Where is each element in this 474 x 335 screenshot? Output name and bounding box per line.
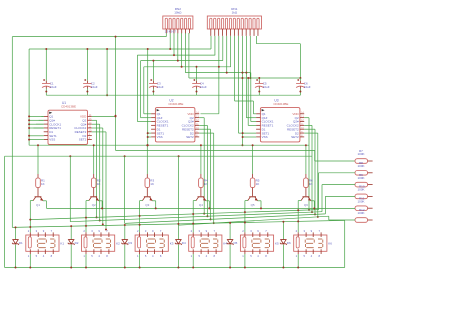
transistor Q1 xyxy=(33,192,43,207)
svg-text:D5: D5 xyxy=(234,241,238,245)
resistor R7 100K xyxy=(355,149,373,163)
wire bundle B3 to R10 xyxy=(125,214,326,224)
wire RN2 pin2 drop xyxy=(169,33,171,49)
wire U2 feed v1 xyxy=(136,55,138,121)
wire U1 right staircase to bundle xyxy=(92,119,97,121)
wire Q4 right leg xyxy=(206,200,210,202)
svg-text:100K: 100K xyxy=(358,199,365,203)
display K3 xyxy=(135,229,174,258)
wire RN2 pin6 drop xyxy=(184,33,186,73)
svg-text:10uF: 10uF xyxy=(50,85,57,89)
wire RN1 pinE xyxy=(226,36,228,73)
svg-text:10uF: 10uF xyxy=(200,85,207,89)
svg-text:K5: K5 xyxy=(275,241,279,245)
diode D1 zener xyxy=(12,240,23,245)
wire U2 v0 xyxy=(147,49,149,145)
capacitor C6 10uF xyxy=(296,79,311,89)
resistor R12 100K xyxy=(355,208,373,222)
display K6 xyxy=(294,229,333,258)
svg-text:D6: D6 xyxy=(287,241,291,245)
wire bottom trunk GND xyxy=(5,267,345,269)
wire bundle B5 xyxy=(12,220,344,227)
svg-text:VSS: VSS xyxy=(262,135,268,139)
wire D1 net xyxy=(15,227,17,239)
wire R3 top feed xyxy=(146,145,148,174)
svg-text:1K: 1K xyxy=(309,182,313,186)
svg-text:100K: 100K xyxy=(358,211,365,215)
wire RN2 pin3 drop xyxy=(173,33,175,55)
svg-text:D1: D1 xyxy=(19,241,23,245)
wire RN1 pinF drop xyxy=(230,36,232,67)
wire RN1 pinG jog xyxy=(235,100,254,102)
svg-text:D2: D2 xyxy=(75,241,79,245)
svg-text:1kΩ: 1kΩ xyxy=(232,11,238,15)
resistor R10 100K xyxy=(355,185,373,199)
diode D6 zener xyxy=(280,240,291,245)
wire bundle B2 to R9 xyxy=(70,212,322,222)
wire C2 stem xyxy=(86,89,88,96)
wire R6 top feed xyxy=(305,145,307,174)
wire RN1 pinB xyxy=(214,36,216,55)
resistor R3 1k xyxy=(145,174,154,192)
wire Q2 left leg xyxy=(86,200,89,202)
resistor R11 100K xyxy=(355,196,373,210)
svg-text:100K: 100K xyxy=(358,176,365,180)
svg-text:K2: K2 xyxy=(116,241,120,245)
svg-text:100K: 100K xyxy=(358,164,365,168)
wire U2 feed v3 xyxy=(143,67,145,114)
wire C5 stem xyxy=(258,89,260,96)
display K5 xyxy=(240,229,279,258)
wire K3 bottom pin to GND xyxy=(139,254,141,268)
wire F3 xyxy=(137,54,215,56)
svg-text:1K: 1K xyxy=(204,182,208,186)
wire Q6 left leg xyxy=(298,200,301,202)
wire RN1 pinM to C6 xyxy=(255,36,257,44)
wire Q1 left leg xyxy=(30,200,33,202)
svg-text:10uF: 10uF xyxy=(157,85,164,89)
wire RN2 pin7 drop xyxy=(188,33,190,78)
wire RN1 pinD xyxy=(222,36,224,61)
svg-text:10kΩ: 10kΩ xyxy=(174,11,182,15)
wire F4 xyxy=(141,60,223,62)
svg-text:Q5: Q5 xyxy=(251,203,255,207)
transistor Q3 xyxy=(142,192,152,207)
wire C1 stem xyxy=(45,89,47,96)
transistor Q5 xyxy=(248,192,258,207)
svg-text:Q2: Q2 xyxy=(92,203,96,207)
wire RN2 pin1 drop xyxy=(165,33,167,37)
wire RN1 pinG long drop xyxy=(234,36,236,101)
wire D2 net xyxy=(70,226,72,240)
wire R1 top feed xyxy=(37,145,39,174)
wire D6 net xyxy=(282,222,284,240)
svg-text:K1: K1 xyxy=(60,241,64,245)
svg-text:2 3 4 5 6 7: 2 3 4 5 6 7 xyxy=(165,30,177,34)
wire Q5 left leg xyxy=(245,200,248,202)
wire U2 feed v2 xyxy=(140,61,142,118)
wire cap bottom trunk xyxy=(46,94,300,96)
wire K4 bottom pin to GND xyxy=(192,254,194,268)
resistor network RN2 10k&#937; xyxy=(163,7,193,33)
wire C3 stem xyxy=(152,89,154,96)
svg-text:D3: D3 xyxy=(128,241,132,245)
resistor R1 1k xyxy=(36,174,45,192)
svg-text:1K: 1K xyxy=(150,182,154,186)
wire RN1 pinH long drop to U3 xyxy=(238,36,240,133)
wire U3 pin feeds xyxy=(247,78,249,125)
svg-text:100K: 100K xyxy=(358,188,365,192)
wire D4 net xyxy=(177,224,179,240)
wire Q6 right leg xyxy=(311,200,315,202)
svg-text:VSS: VSS xyxy=(49,138,55,142)
IC U3 CD4013BE xyxy=(256,99,304,142)
resistor R6 1k xyxy=(304,174,313,192)
wire trunk T2 VDD-R7 xyxy=(116,149,315,151)
svg-text:D4: D4 xyxy=(182,241,186,245)
svg-text:100K: 100K xyxy=(358,152,365,156)
wire trunk T1 VSS xyxy=(29,144,309,146)
capacitor C4 10uF xyxy=(192,79,207,89)
svg-text:K3: K3 xyxy=(170,241,174,245)
wire F2 horizontal xyxy=(29,48,211,50)
diode D4 zener xyxy=(175,240,186,245)
diode D2 zener xyxy=(68,240,79,245)
resistor R5 1k xyxy=(250,174,259,192)
wire trunk T3 xyxy=(5,155,312,157)
wire VDD vertical from top trunk xyxy=(115,37,117,151)
display K4 xyxy=(189,229,228,258)
svg-text:1K: 1K xyxy=(256,182,260,186)
wire F7 xyxy=(189,77,301,79)
wire U3 right staircase to bundle xyxy=(304,117,309,119)
resistor R4 1k xyxy=(199,174,208,192)
wire F6 xyxy=(185,72,250,74)
svg-text:SET2: SET2 xyxy=(79,138,87,142)
wire U2 right staircase to bundle xyxy=(199,117,204,119)
wire U1 pin feeds xyxy=(34,127,44,129)
wire RN1 pinJ long drop xyxy=(245,36,247,118)
wire bottom trunk riser xyxy=(344,220,346,267)
resistor R9 100K xyxy=(355,173,373,187)
node C2 top feed xyxy=(86,49,88,81)
wire RN2 pin5 drop xyxy=(181,33,183,67)
capacitor C5 10uF xyxy=(255,79,270,89)
svg-text:10uF: 10uF xyxy=(91,85,98,89)
wire Q2 right leg xyxy=(99,200,103,202)
wire U1 VDD to top net xyxy=(92,115,116,117)
wire F5 xyxy=(144,66,231,68)
wire R2 top feed xyxy=(93,145,95,174)
wire Q3 right leg xyxy=(152,200,156,202)
wire Q4 left leg xyxy=(193,200,196,202)
wire C4 stem xyxy=(196,89,198,96)
svg-text:Q1: Q1 xyxy=(36,203,40,207)
wire cap drop xyxy=(106,49,108,95)
wire U3 v0 continues pinI xyxy=(242,132,244,134)
svg-text:1K: 1K xyxy=(97,182,101,186)
svg-text:SET2: SET2 xyxy=(186,135,194,139)
wire U1 left pin branches xyxy=(29,115,44,117)
wire R7 feed xyxy=(314,150,316,161)
diode D5 zener xyxy=(227,240,238,245)
svg-text:VSS: VSS xyxy=(157,135,163,139)
wire bundle B4 to R12 xyxy=(179,216,329,225)
wire net N1 top trunk xyxy=(12,36,166,38)
svg-text:Q6: Q6 xyxy=(304,203,308,207)
transistor Q2 xyxy=(89,192,99,207)
wire Q3 left leg xyxy=(140,200,143,202)
svg-text:SET2: SET2 xyxy=(291,135,299,139)
wire K1 bottom pin to GND xyxy=(29,254,31,268)
wire bundle B0 emitter trunk to R11 xyxy=(47,207,355,209)
IC U1 CD4013BE xyxy=(44,101,92,144)
IC U2 CD4013BE xyxy=(151,99,199,142)
svg-text:Q4: Q4 xyxy=(199,203,203,207)
transistor Q6 xyxy=(301,192,311,207)
wire R5 top feed xyxy=(252,145,254,174)
wire U1 feed v0 xyxy=(28,49,30,145)
capacitor C1 10uF xyxy=(42,79,57,89)
capacitor C2 10uF xyxy=(83,79,98,89)
svg-text:CD4013BE: CD4013BE xyxy=(61,105,76,109)
display K2 xyxy=(82,229,121,258)
display K1 xyxy=(26,229,65,258)
wire D3 net xyxy=(124,225,126,240)
wire RN1 pinI long drop to T1 xyxy=(241,36,243,145)
resistor R2 1k xyxy=(91,174,100,192)
wire bundle B1 to R8 xyxy=(31,210,319,220)
transistor Q4 xyxy=(196,192,206,207)
wire Q5 right leg xyxy=(258,200,262,202)
svg-text:Q3: Q3 xyxy=(145,203,149,207)
resistor R8 100K xyxy=(355,161,373,175)
svg-text:CD4013BE: CD4013BE xyxy=(273,102,288,106)
wire RN1 pinK drop xyxy=(249,36,251,78)
wire RN2 pin4 drop xyxy=(177,33,179,61)
wire K6 bottom pin to GND xyxy=(297,254,299,268)
wire R4 top feed xyxy=(200,145,202,174)
svg-text:K6: K6 xyxy=(328,241,332,245)
wire C6 stem xyxy=(299,89,301,96)
wire RN1 pinA xyxy=(210,36,212,49)
svg-text:10uF: 10uF xyxy=(263,85,270,89)
svg-text:1K: 1K xyxy=(41,182,45,186)
wire Q1 right leg xyxy=(43,200,47,202)
wire RN1 pinC long drop to U2 VDD xyxy=(218,36,220,114)
svg-text:CD4013BE: CD4013BE xyxy=(168,102,183,106)
node C1 top feed xyxy=(45,49,47,81)
capacitor C3 10uF xyxy=(149,79,164,89)
wire K2 bottom pin to GND xyxy=(85,254,87,268)
wire K5 bottom pin to GND xyxy=(244,254,246,268)
svg-text:10uF: 10uF xyxy=(304,85,311,89)
diode D3 zener xyxy=(121,240,132,245)
wire D5 net xyxy=(229,223,231,240)
resistor network RN1 1k&#937; xyxy=(207,7,261,36)
